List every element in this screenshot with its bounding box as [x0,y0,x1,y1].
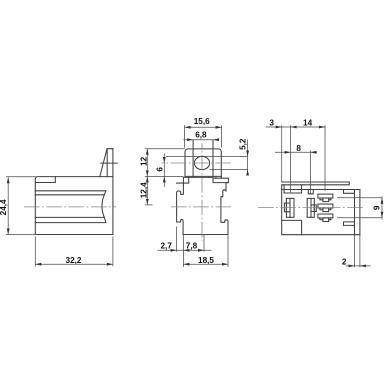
bracket tab rounded rect [185,149,221,177]
flange lower notch [344,222,355,226]
left profile [177,177,184,234]
svg-text:3: 3 [269,119,274,128]
left view rear tab top [107,149,113,177]
svg-text:7,8: 7,8 [186,242,198,251]
left view rear tab diagonal [100,149,107,177]
dimension 18,5 arrows [183,263,189,266]
middle view hole horizontal centerline [162,162,233,164]
middle view horizontal centerline [171,206,233,208]
dimension 2 [346,235,371,268]
right view centerline [258,207,364,209]
svg-text:15,6: 15,6 [194,117,210,126]
svg-text:24,4: 24,4 [0,199,8,215]
bracket hole [194,156,209,169]
right profile [221,183,229,235]
top left pocket [284,185,302,193]
mounting flange verticals [355,190,360,235]
terminal cluster left [286,198,294,217]
dimensions 3 and 14 [266,125,326,193]
middle view center vertical [201,144,203,241]
terminal slot 2 [318,204,333,208]
left view inner slot line 1 [35,191,106,195]
right block [213,178,228,182]
left foot [177,177,189,183]
svg-text:12,4: 12,4 [140,182,149,198]
left view inner slot concave end [102,195,104,218]
bracket fold line left [192,140,194,176]
dimension 12 / 12,4 extension lines [145,149,185,205]
top small pocket [308,190,313,194]
bracket fold line right [212,140,214,176]
left view centerline [24,206,116,208]
bottom-left inner box [282,220,302,234]
dimension 2,7 arrows [171,249,177,252]
dimension 15,6 [185,125,222,147]
svg-text:5,2: 5,2 [238,138,247,150]
left view top step line [35,177,55,183]
dimension 9 [337,197,382,220]
svg-text:12: 12 [140,156,149,166]
dimension 6,8 [183,139,217,141]
dimension 6 [163,154,165,188]
svg-text:18,5: 18,5 [198,256,214,265]
svg-text:6: 6 [156,167,165,172]
right feet verticals [216,176,221,178]
tab bottom line [185,175,221,177]
dimension 5,2 [166,140,248,175]
right view outline [282,182,360,235]
terminal slot 3 [318,214,333,218]
svg-text:32,2: 32,2 [66,256,82,265]
svg-text:6,8: 6,8 [195,131,207,140]
terminal slot 1 [318,194,333,198]
terminal cluster middle [307,198,314,217]
flange upper notch [344,190,355,194]
svg-text:2,7: 2,7 [161,242,173,251]
dimension 32,2 [35,237,113,267]
left view body outline [35,149,113,235]
left view inner slot line 2 [35,217,106,222]
svg-text:8: 8 [296,144,301,153]
svg-text:14: 14 [303,119,313,128]
body shoulder line [183,176,213,178]
bottom dimensions extension lines [158,227,229,268]
body bottom edge [183,234,228,236]
dimension 8 [275,151,317,194]
svg-text:2: 2 [342,257,347,266]
left view tab crossing line [101,162,118,164]
right view inner top line [282,189,360,191]
dimension 24,4 [6,177,36,235]
svg-text:9: 9 [372,205,381,210]
